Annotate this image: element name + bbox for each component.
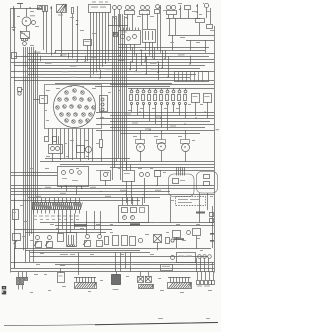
label bus A 4 [118,60,125,61]
fuse row unit 2 [136,88,139,115]
wire wiper unit drops [62,186,82,195]
connector cluster X20 [17,272,28,290]
relay group right margin [210,206,214,248]
switch box S5 [185,6,191,10]
wire bus A7 [28,68,200,70]
wire top-right rail [166,18,200,20]
relay box D pin 4 [190,72,192,82]
labels scattered fine text [17,2,214,294]
wire top feed [11,6,42,10]
horn H1 [203,3,209,18]
lamp cluster bulb 7 [80,98,83,101]
lamp cluster bulb 5 [65,98,68,101]
wire regulator link [33,99,40,101]
label right margin [216,129,220,130]
wire rail y268 [11,268,214,270]
fuse F9 [100,130,103,162]
switch box J [155,171,161,186]
connector X5 [154,235,162,251]
fuse row unit 7 [166,88,169,130]
lamp cluster bulb 2 [73,89,76,92]
wire rail y225 [55,225,214,227]
relay box C [196,19,205,23]
rear lamp circles right [198,255,212,259]
cluster connector right [100,96,108,112]
wire door bundle [177,167,185,176]
wire relay E1 drop [195,102,197,115]
label bus C 7 [35,196,41,197]
wire left bundle 2 [23,47,25,250]
relay box D pin 7 [202,72,204,82]
relay box D [175,72,209,82]
wire cluster drop 9 [80,129,82,162]
wire rail y232 [25,232,106,234]
wire bus C3 [11,191,170,193]
wire rail y158 [45,158,130,160]
label bus A 3 [90,57,97,58]
wire band E drop 1 [14,249,16,268]
wire rail y271 [11,271,214,273]
label bus A 10 [135,71,142,72]
wire fuse box A pin 6 [105,12,107,64]
wire relay C drop [199,23,201,35]
fuse F3 [72,8,74,14]
lamp cluster bulb 1 [65,91,68,94]
lamp cluster bulb 12 [78,105,81,108]
ground connector box hatched [57,4,67,13]
label bus C 1 [45,187,51,188]
wire band E drop 2 [25,250,27,262]
wire bus C1 [11,185,214,187]
fuse holder left [13,198,19,229]
lamp cluster bulb 23 [86,119,89,122]
wire bus B5 [96,124,214,126]
wire with node x51 [50,6,51,56]
clock unit [77,146,92,153]
label bus A 6 [178,54,185,55]
label y254 [60,254,75,255]
wire wiper drops [169,15,174,18]
wire band E drop 11 [200,258,202,272]
wire cluster drop 6 [68,129,70,159]
lamp cluster bulb 15 [60,113,63,116]
wire bus B1 [96,112,214,114]
footer rule [4,322,218,325]
lamp cluster bulb 9 [56,106,59,109]
wire centre bundle 4 [118,14,120,159]
wire bus A13 partial [95,86,170,88]
gauge M4 [157,130,166,162]
wire bus A8 [11,71,214,73]
wire rail y229 [14,229,112,231]
wire bus A1 [55,50,205,52]
wire door drops [171,193,208,223]
label bus A 5 [150,63,157,64]
node bus A dot 5 [164,58,165,59]
wire band E drop 6 [115,252,117,271]
heater control unit [119,197,149,223]
wire bus A stub 5 [145,53,147,61]
ground strap left [13,9,15,27]
label bus B 5 [145,129,151,130]
label bus C 5 [60,193,66,194]
connector cluster X26 [197,272,215,287]
wire rail y164 [60,164,214,166]
label bus A 15 [70,77,77,78]
node bus A dot 6 [189,63,190,64]
wire bus A stub 12 [100,70,102,78]
wire left bundle 9 [37,53,39,198]
label bus B 4 [170,126,176,127]
label bus C 6 [105,196,111,197]
lamp cluster bulb 21 [72,120,75,123]
wire centre bundle 7 [124,16,126,162]
wire alternator drop [26,8,28,17]
border frame left [10,8,12,273]
relay box E1 [192,94,200,103]
control box H [123,162,135,182]
wire rail y161 [40,161,214,163]
door switch contour left [169,174,195,197]
node bus B dot 6 [204,111,205,112]
wire left bundle 7 [33,47,35,249]
fuse row unit 1 [130,88,133,112]
indicator bottom right [187,231,191,235]
starter M1 [20,31,30,39]
label bus A 1 [34,52,41,53]
wire bus A0 partial [118,47,209,49]
connector strip X25 [168,277,192,289]
wire gauge stubs [53,136,59,162]
wire bus A4 [28,59,214,61]
indicator pair [140,173,150,204]
label bus A 12 [90,74,97,75]
wire bus A5 [11,62,214,64]
wire relay K2 drops [146,42,153,58]
label alternator [30,15,35,16]
rear lamp cluster box [177,253,196,263]
lamp cluster bulb 17 [74,113,77,116]
relay K2 [143,30,156,43]
junction box right [207,25,213,29]
legend dashed box [176,197,206,206]
wire bus B6 [110,127,205,129]
label bus A 7 [45,63,52,64]
lamp cluster bulb 19 [89,113,92,116]
lamp cluster bulb 8 [88,98,91,101]
fuse row unit 5 [154,88,157,124]
wire bus A stub 7 [190,56,192,64]
wire bus A10 [11,77,190,79]
gauge cluster left [49,145,63,154]
fuse box A [89,5,111,13]
wire cluster drop 5 [64,129,66,159]
wire alternator to starter [26,26,28,32]
node bus A dot 7 [32,61,33,62]
wire relay K1 drops [123,44,135,56]
wire rail y167 [110,167,214,169]
node bus C dot 1 [65,185,66,186]
wire fuse F3 drop [72,14,74,58]
wiper motor M2 [166,5,176,14]
node bus A dot 8 [99,77,100,78]
wire bus A3 [14,56,209,58]
label bus A 16 [150,68,157,69]
wire cluster drop 12 [92,129,94,162]
label dark y224 [74,223,140,226]
fuse row unit 3 [142,88,145,118]
wire drops bottom right [177,236,197,249]
wire rail y252 [30,252,150,254]
wire rail y256 [30,256,208,258]
wire strip drops [59,211,101,235]
wire bus A9 [28,74,196,76]
connector X21 [58,268,65,283]
wire rail y25 left [108,25,128,27]
node bus centre dots [131,49,168,77]
relay box E2 [204,94,212,103]
wire rail y175 [11,175,57,177]
wire band E drop 4 [33,249,35,262]
wire band E drop 12 [204,258,206,272]
rear lamp circle [171,256,175,260]
wire centre bundle 8 [126,50,128,170]
fuse F1 [43,6,45,51]
node bus A dot 2 [84,61,85,62]
label marks right border [210,233,214,242]
wire band E drop 10 [196,258,198,272]
node bus A dot 12 [61,55,62,56]
wire bus C4 [11,194,214,196]
switch S14 [97,235,109,247]
wire lamp drops 3 [143,14,148,29]
wire left bundle 4 [27,47,29,249]
wire fuse box A pin 4 [99,12,101,70]
wire centre bundle 1 [112,16,114,180]
node bus A dot 4 [144,61,145,62]
node bus C dot 7 [39,188,40,189]
wire rail y172 [11,172,57,174]
wire relay E2 drop [207,102,209,118]
label bus A 11 [62,71,69,72]
wire left bundle 1 [14,8,16,268]
wire S5 drop [188,10,190,19]
wire fuse box A pin 3 [96,12,98,72]
label bus B 3 [132,123,138,124]
node bus A dot 10 [157,72,158,73]
starter solenoid [23,41,27,46]
sensor with lamp [155,5,160,50]
node bus C dot 4 [143,194,144,195]
label footer small [158,318,210,319]
wire cluster drop 7 [72,129,74,161]
terminal strip X12 [32,198,82,214]
wire cluster drop 1 [48,129,50,137]
wire centre bundle 5 [120,14,122,180]
lamp cluster bulb 16 [67,113,70,116]
wire bus B3 [96,118,214,120]
wire bus B7 [96,130,214,132]
wire band E drop 9 [130,252,132,271]
wire band E drop 13 [208,258,210,272]
relay K1 pins [121,28,139,31]
node bus C dot 6 [100,191,101,192]
wire left bundle 8 [35,50,37,203]
label terminal strip [33,216,79,220]
relay box D pin 6 [198,72,200,82]
wire cluster drop 10 [84,129,86,159]
switch S12 [45,236,53,248]
wire x210 drop [210,8,212,24]
wire bus A stub 3 [85,56,87,62]
wire bus B8 [120,133,200,135]
starter terminal 50 [26,39,28,41]
border frame right [214,26,216,273]
label bus C 2 [90,187,96,188]
wire bus B2 [110,115,214,117]
node bus C dot 5 [156,185,157,186]
sender rects pair [45,137,57,142]
relay K1 [119,31,141,45]
door switch contour right [197,172,218,194]
wire cluster drop 8 [76,129,78,159]
wire centre bundle 2 [114,16,116,168]
component arrow top-left [37,6,42,10]
wire bus A stub 11 [158,64,160,72]
label bus B 1 [125,114,131,115]
wire x190 drop [190,40,192,50]
switch S13 [83,235,91,247]
wire bus A11 [14,80,214,82]
relay box D pin 5 [194,72,196,82]
ignition distributor [58,233,77,247]
turn signal lamps left [113,6,122,10]
ground symbol left [12,28,16,31]
label bus A 14 [36,77,43,78]
junction box left low [12,53,17,59]
fuse row unit 10 [184,88,187,118]
node bus A dot 11 [76,61,77,62]
wire bus A2 [28,53,214,55]
wire x172 drop [172,35,174,50]
node bus B dot 2 [160,117,161,118]
fuse row unit 9 [178,88,181,115]
connector strip X22 [74,277,97,289]
relay box D pin 2 [182,72,184,82]
node bus A dot 9 [129,69,130,70]
wire control H drops [127,181,132,204]
relay box D pin 3 [186,72,188,82]
wire band E drop 5 [78,252,80,275]
wire rail y250 [25,250,140,252]
wire sensor G drop [105,180,107,186]
node bus B dot 5 [195,117,196,118]
wire bus A stub 8 [40,56,42,62]
wire cluster drop 3 [56,129,58,145]
lamp unit right [166,238,175,244]
lamp cluster bulb 13 [85,106,88,109]
wire left bundle 6 [31,47,33,234]
wire centre bundle 3 [116,16,118,162]
wire cluster drop 2 [52,129,54,145]
wire fuse box A pin 7 [108,12,110,61]
wire bus A stub 10 [130,61,132,69]
wire bus A stub 4 [120,50,122,56]
switch S11 [34,236,42,248]
wire bus C6 [11,200,140,202]
wire bus A stub 6 [165,50,167,58]
wire fuse row rail [128,88,214,90]
wire x77 with ticks [76,6,78,61]
lamp cluster bulb 3 [81,91,84,94]
wire x197 nodes [196,4,197,18]
wire rail y170 [155,170,214,172]
gauge M3 [136,130,145,162]
lamp cluster bulb 6 [73,97,76,100]
lamp cluster bulb 4 [58,98,61,101]
wire rail y222 [40,222,214,224]
label bus A 13 [120,74,127,75]
wire left bundle 3 [25,47,27,250]
label bus A 2 [60,54,67,55]
battery B+ terminal bar [17,4,23,9]
wire rail y248 [14,248,211,250]
label bus C 3 [120,190,126,191]
wire cluster drop 11 [88,129,90,161]
node bus C dot 3 [125,194,126,195]
wire right rail y40 [186,40,214,42]
wire bus A14 partial [110,84,214,86]
switch box bottom right A [173,231,185,241]
instrument cluster dial [54,86,96,128]
junction box y264 [161,265,173,271]
node bus A dot 1 [54,52,55,53]
sender unit left [18,88,24,96]
wire band E drop 14 [212,262,214,272]
switch box bottom right B [193,229,201,236]
relay box B2 [84,40,92,46]
gauge M5 [181,130,190,162]
wire bus A stub 1 [55,50,57,53]
alternator G1 [22,17,36,26]
wire bus A stubs centre [133,47,169,80]
label bus A 9 [105,68,112,69]
voltage regulator [40,96,48,104]
wire fuse box A pin 5 [102,12,104,67]
fuse F2 [46,6,48,53]
wire bus C5 [28,197,160,199]
node bus C dot 2 [81,188,82,189]
wire fuse box A pin 2 [93,12,95,75]
stop lamp switch [125,6,135,15]
switch S15 [113,236,128,246]
label fuse box A [91,7,106,8]
connector block X23 dark [112,272,121,291]
wire bus A12 [55,83,172,85]
wire arrow x180 [179,5,181,18]
wiper unit box [58,167,89,187]
wire centre bundle 6 [122,14,124,170]
wire rail y262 [11,262,214,264]
fuse row unit 4 [148,88,151,121]
node bus B dot 1 [139,111,140,112]
wire lamp drops 1 [115,10,120,28]
wire bus A stub 2 [68,53,70,59]
terminal pair [113,32,118,37]
wire band E drop 3 [29,250,31,262]
wire x160 with node [159,5,160,53]
node bus B dot 4 [149,129,150,130]
